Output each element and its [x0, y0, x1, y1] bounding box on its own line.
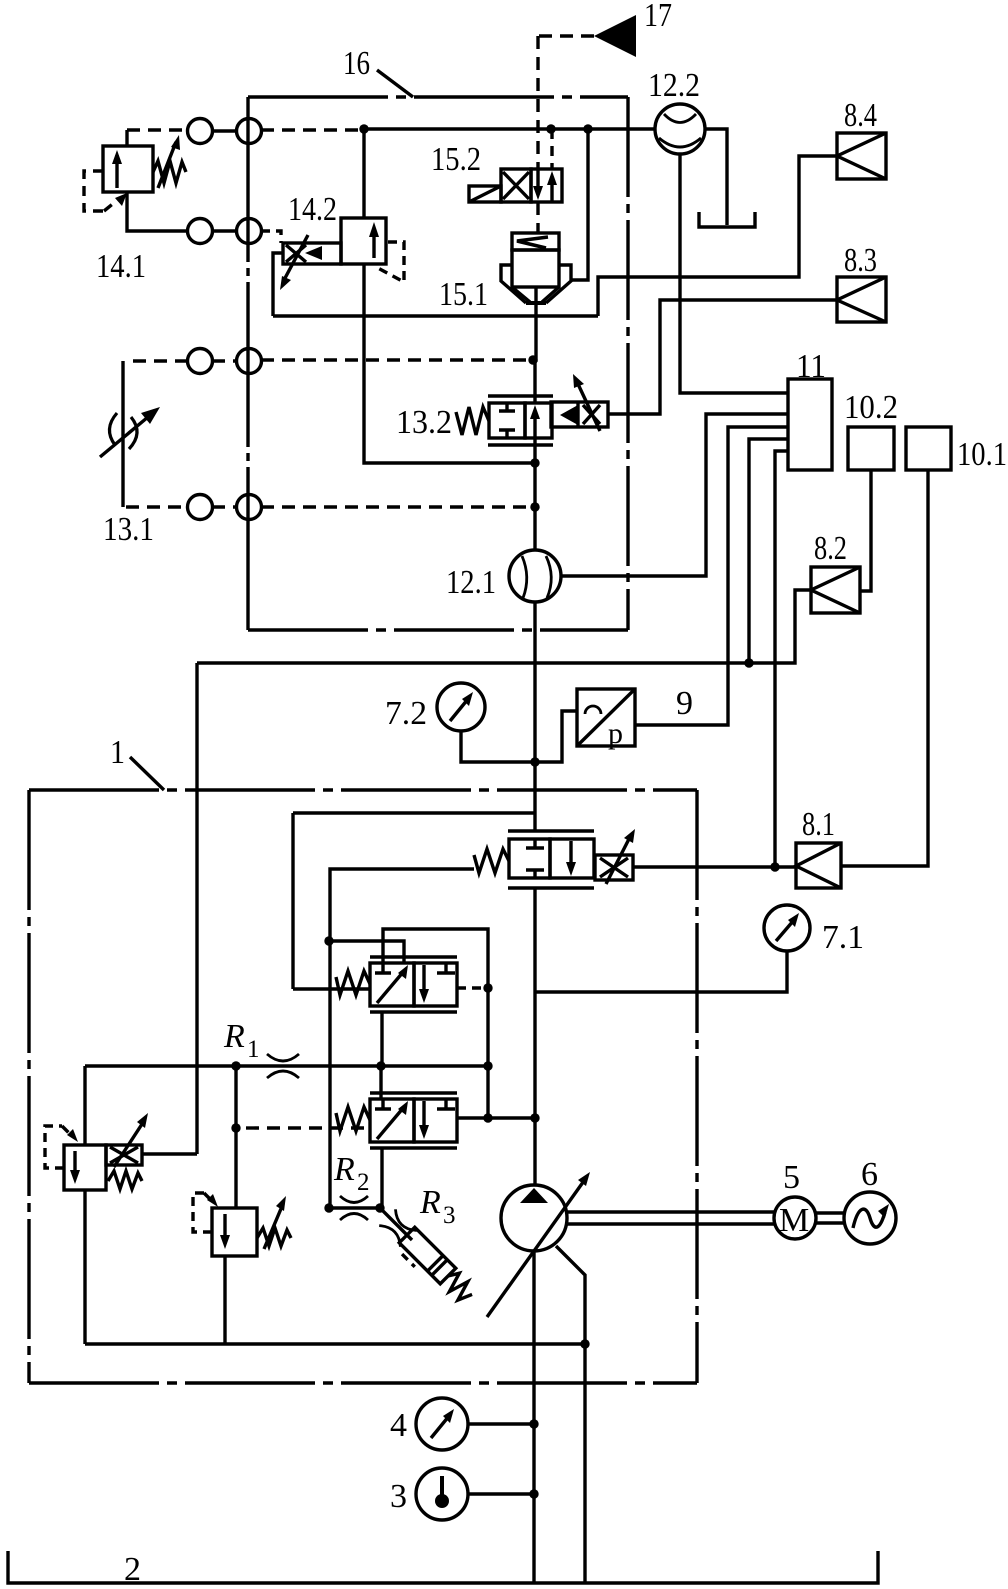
pressure transducer 9 [577, 689, 635, 746]
valve 14.2 adjust arrow [284, 235, 308, 280]
controller 11 [788, 379, 832, 470]
wire 12.1 to 11 [561, 414, 788, 576]
svg-text:13.2: 13.2 [396, 404, 452, 441]
motor 5 [774, 1197, 816, 1239]
junction node [483, 1061, 492, 1070]
valve V1 right position (flow arrow) [550, 839, 594, 878]
wire VB top port [379, 1066, 382, 1099]
valve 14.2 flow arrow [372, 229, 375, 258]
dashed hose 14.1 to coupling [127, 128, 188, 131]
leader line for label 16 [377, 70, 413, 97]
orifice R1 line [85, 1064, 488, 1067]
dashed hose row3 to main line [261, 358, 533, 361]
svg-text:16: 16 [343, 45, 370, 82]
label 12.1 [446, 564, 496, 601]
pressure gauge 7.1 [764, 905, 810, 951]
wire 7.1 to main line [535, 951, 787, 992]
wire 14.2 column down to bypass [364, 316, 535, 463]
drain to tank [583, 1344, 586, 1583]
junction node [231, 1123, 240, 1132]
solenoid valve 15.2 coil [469, 186, 501, 202]
valve 13.2 proportional solenoid [551, 402, 608, 427]
amplifier 8.1 [796, 843, 841, 888]
svg-text:M: M [779, 1202, 809, 1239]
marker 17 (filled arrow) [594, 15, 636, 57]
valve VA spring [336, 971, 370, 995]
valve 14.2 check poppet [305, 246, 322, 260]
pump case drain [556, 1246, 585, 1344]
label R1 [223, 1018, 260, 1063]
enclosure box 16 (dash-dot frame) [248, 95, 628, 98]
wire 14.2 left port [273, 253, 283, 316]
valve VL proportional solenoid [106, 1145, 142, 1165]
valve V1 spring [474, 849, 509, 873]
wire V1 pilot tap [293, 811, 535, 814]
quick coupling circles 14.1/14.2 rows [188, 119, 213, 144]
label R3 [419, 1184, 456, 1229]
throttle 13.1 arcs [109, 413, 117, 445]
relief valve 14.1 adjust arrow [158, 142, 176, 188]
label 13.2 [396, 404, 452, 441]
supply line P inside 16 [364, 127, 656, 130]
orifice R2 line [329, 1206, 380, 1209]
variable pump arrow [487, 1178, 586, 1317]
wire 4 to line [468, 1422, 534, 1425]
svg-text:8.4: 8.4 [844, 97, 877, 134]
enclosure box 1 (dash-dot frame) [29, 788, 697, 791]
wire 15.1 output down [535, 287, 536, 360]
junction node [546, 124, 555, 133]
svg-text:8.1: 8.1 [802, 806, 835, 843]
svg-text:15.1: 15.1 [439, 276, 488, 313]
svg-text:R: R [419, 1184, 441, 1221]
main line below 12.1 [533, 602, 536, 831]
dashed pilot from node to valve 15.2 [550, 129, 553, 169]
pressure gauge 4 [416, 1398, 468, 1450]
dashed hose 13.1 bottom [126, 505, 188, 508]
svg-text:6: 6 [861, 1156, 878, 1193]
valve V1 proportional solenoid [595, 855, 633, 880]
torque/speed sensor 6 [844, 1192, 896, 1244]
svg-text:13.1: 13.1 [103, 511, 154, 548]
junction node [324, 936, 333, 945]
wire VA pilot [329, 941, 404, 963]
svg-text:3: 3 [443, 1202, 456, 1229]
amplifier 8.4 [837, 133, 886, 179]
orifice R1 arcs [267, 1054, 299, 1061]
wire 14.2 top port [362, 129, 365, 218]
wire VL output [142, 1152, 197, 1155]
wire node P to 15.1 right port [571, 129, 588, 280]
pressure gauge 7.2 [437, 683, 485, 731]
junction node [529, 1419, 538, 1428]
wire V1 solenoid to 8.1 [633, 865, 796, 868]
label 15.1 [439, 276, 488, 313]
svg-text:14.1: 14.1 [96, 248, 146, 285]
main line V1 to pump [533, 888, 536, 1185]
junction node [770, 862, 779, 871]
svg-text:7.2: 7.2 [385, 695, 427, 732]
dashed hose between couplings row4 [212, 505, 237, 508]
compensator valve VA rails [370, 957, 457, 1012]
junction node [583, 124, 592, 133]
relief valve 14.1 flow arrow [115, 155, 118, 188]
wire 9 left port to main line [535, 711, 577, 762]
svg-text:10.1: 10.1 [957, 436, 1007, 473]
wire VB bottom port [380, 1148, 383, 1208]
label 15.2 [431, 141, 481, 178]
wire 9 output to 11 [635, 427, 788, 725]
drain gallery wire y316 [273, 314, 598, 317]
label 14.2 [288, 191, 337, 228]
valve VL adjust arrow [114, 1121, 144, 1167]
relief valve 14.1 pilot dashed loop [84, 171, 104, 211]
flow meter 12.2 [655, 104, 705, 154]
label R2 [333, 1151, 370, 1196]
svg-text:3: 3 [390, 1478, 407, 1515]
wire relief output riser [195, 663, 198, 1154]
module 10.1 [906, 427, 951, 470]
wire 14.1 top port [125, 130, 128, 146]
valve 13.2 right position (flow arrow) [525, 403, 552, 438]
stroking cylinder of pump [395, 1227, 477, 1309]
valve VL spring [108, 1171, 142, 1189]
module 10.2 [848, 427, 894, 470]
compensator valve VB rails [370, 1093, 457, 1148]
junction node [530, 502, 539, 511]
wire 13.1 vertical [121, 361, 124, 507]
wire VB right port [457, 1116, 535, 1119]
wire R1 left leg to relief valve [83, 1066, 86, 1145]
wire 11 to node 8.1 [775, 451, 788, 867]
valve VB left position [370, 1099, 414, 1142]
valve VM adjust arrow [264, 1204, 283, 1249]
wire VA bypass loop [383, 929, 488, 1120]
wire VA left port [293, 987, 370, 990]
junction node [324, 1203, 333, 1212]
label 13.1 [103, 511, 154, 548]
variable throttle 13.1 dashed hose top [126, 359, 188, 362]
svg-text:12.2: 12.2 [648, 67, 700, 104]
wire node to middle relief valve [234, 1066, 237, 1208]
wire 14.2 bottom port [362, 264, 365, 316]
label 17 [644, 0, 672, 34]
junction node [483, 1113, 492, 1122]
pump P circle [501, 1185, 567, 1251]
valve VB spring [336, 1107, 370, 1131]
valve VM dashed pilot [193, 1193, 212, 1232]
cartridge valve 15.1 seat tabs [501, 265, 526, 303]
valve VB right position [414, 1099, 457, 1142]
dashed hose row1 to node P [261, 128, 362, 131]
valve 13.2 spring [456, 407, 489, 435]
wire 11 to node y663 [749, 439, 788, 663]
svg-text:4: 4 [390, 1407, 407, 1444]
svg-text:7.1: 7.1 [822, 919, 864, 956]
junction node [530, 757, 539, 766]
orifice R2 arcs [340, 1196, 368, 1203]
proportional valve 13.2 rails [488, 396, 553, 445]
tank symbol [699, 212, 755, 227]
dashed hose row4 to main line [261, 505, 534, 508]
junction node [530, 1113, 539, 1122]
quick coupling circles 13.1 rows [188, 349, 213, 374]
label 12.2 [648, 67, 700, 104]
dashed hose row2 to valve 14.2 [261, 231, 281, 243]
junction node [375, 1203, 384, 1212]
junction node [529, 1489, 538, 1498]
junction node [744, 658, 753, 667]
valve 14.2 pilot cell [283, 243, 341, 264]
junction node [231, 1061, 240, 1070]
wire V1 left port [330, 869, 474, 1208]
svg-text:2: 2 [124, 1551, 141, 1588]
tank 2 (open reservoir at bottom) [8, 1551, 878, 1583]
wire 14.1 bottom port to coupling [127, 192, 188, 231]
wire 10.2 to 8.2 [860, 470, 871, 591]
junction node [376, 1061, 385, 1070]
junction node [580, 1339, 589, 1348]
wire VM bottom to manifold [223, 1256, 226, 1344]
dashed pilot VB to middle relief [246, 1126, 370, 1129]
pump suction to tank [532, 1251, 535, 1583]
cartridge valve 15.1 spring box [512, 233, 559, 250]
svg-text:17: 17 [644, 0, 672, 34]
svg-text:1: 1 [247, 1036, 260, 1063]
relief valve VM body [212, 1208, 257, 1256]
long wire from relief valve to 8.2 [197, 590, 811, 663]
valve 15.2 left position (blocked X) [501, 169, 531, 202]
svg-text:R: R [333, 1151, 355, 1188]
drive shaft double line [567, 1212, 774, 1224]
main line inside 16 [533, 360, 536, 403]
valve VA left position [370, 963, 414, 1006]
orifice R3 on diagonal [380, 1208, 412, 1240]
label 1 [110, 734, 125, 771]
valve 13.2 left position (blocked) [489, 403, 525, 438]
junction node [483, 983, 492, 992]
leader line for label 1 [130, 757, 164, 790]
svg-text:12.1: 12.1 [446, 564, 496, 601]
amplifier 8.3 [837, 277, 886, 322]
wire VA bottom port [380, 1012, 383, 1066]
svg-text:9: 9 [676, 685, 693, 722]
cartridge valve 15.1 body [512, 250, 559, 287]
dashed hose between couplings row3 [212, 359, 237, 362]
valve 14.2 main body [341, 218, 386, 264]
wire to amplifier 8.4 [598, 156, 837, 316]
svg-text:2: 2 [357, 1169, 370, 1196]
svg-text:8.2: 8.2 [814, 530, 847, 567]
wire between couplings row2 [212, 229, 237, 232]
valve VL dashed pilot [45, 1126, 64, 1168]
bottom manifold in box 1 [85, 1342, 585, 1345]
flow meter 12.1 [509, 550, 561, 602]
label 14.1 [96, 248, 146, 285]
svg-text:14.2: 14.2 [288, 191, 337, 228]
svg-text:p: p [608, 717, 623, 750]
amplifier 8.2 [811, 567, 860, 613]
wire VL bottom to manifold [83, 1190, 86, 1344]
label 2 [124, 1551, 141, 1588]
wire 8.1 to 10.1 [841, 470, 928, 866]
wire 12.2 to tank symbol [705, 129, 727, 225]
wire 12.2 bottom to 11 [680, 155, 788, 393]
wire 3 to line [468, 1492, 534, 1495]
throttle 13.1 adjust arrow [100, 417, 148, 457]
svg-text:R: R [223, 1018, 245, 1055]
wire 7.2 to main line [461, 731, 535, 762]
dashed pilot vertical x538 [536, 36, 539, 169]
svg-text:15.2: 15.2 [431, 141, 481, 178]
valve VM spring [257, 1228, 291, 1246]
svg-text:10.2: 10.2 [844, 389, 898, 426]
label 16 [343, 45, 370, 82]
svg-text:8.3: 8.3 [844, 242, 877, 279]
coupling double line [816, 1213, 844, 1223]
svg-text:1: 1 [110, 734, 125, 771]
wire between couplings row1 [212, 129, 237, 132]
valve 15.2 right position (flow arrows) [531, 169, 562, 202]
wire solenoid 13.2 to amplifier 8.3 [608, 300, 837, 414]
svg-text:5: 5 [783, 1159, 800, 1196]
valve 14.2 dashed pilot hook [376, 242, 404, 282]
svg-text:11: 11 [796, 348, 826, 385]
junction node [530, 458, 539, 467]
junction node [359, 124, 368, 133]
pilot relief valve VL body [64, 1145, 106, 1190]
valve VA right position [414, 963, 457, 1006]
junction node [528, 355, 537, 364]
thermometer 3 [416, 1468, 468, 1520]
dashed pilot from 17 [538, 34, 594, 37]
relief valve 14.1 body [103, 146, 153, 192]
valve V1 left position (blocked) [509, 839, 550, 878]
LS control valve V1 rails [508, 831, 594, 888]
dashed wire VA right port [457, 986, 488, 989]
relief valve 14.1 spring [153, 161, 186, 183]
